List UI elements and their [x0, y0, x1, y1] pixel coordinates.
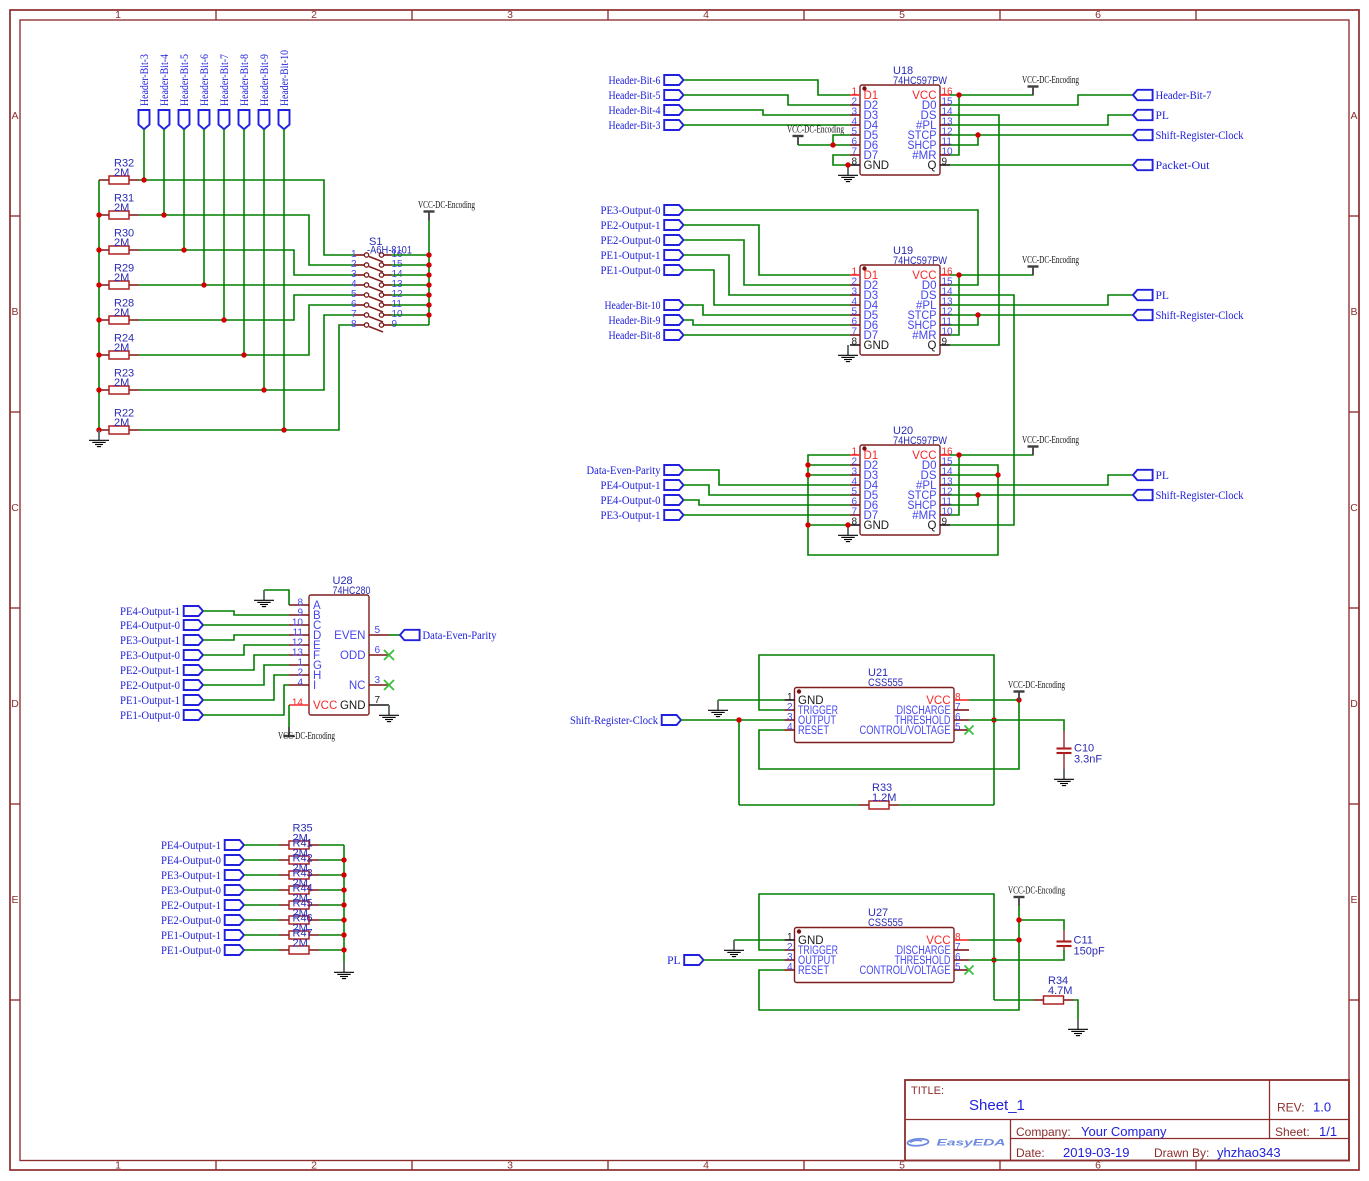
switch S1 A6H-8101 [351, 249, 403, 332]
wire U27.THRESHOLD to C11 [969, 950, 1064, 960]
U28 pin 2 (H) stub [289, 674, 309, 676]
svg-text:PE1-Output-1: PE1-Output-1 [120, 695, 180, 707]
U27 pin 3 (OUTPUT) stub [785, 959, 795, 961]
junction array bus [341, 917, 346, 922]
U20 pin 8 (GND) stub [850, 524, 860, 526]
svg-text:PE3-Output-1: PE3-Output-1 [120, 635, 180, 647]
resistor R33 1.2M [859, 801, 899, 809]
svg-text:9: 9 [942, 337, 948, 348]
no-connect X on U21.CONTROL/VOLTAGE [965, 726, 974, 735]
U27 pin 1 (GND) stub [785, 939, 795, 941]
svg-text:7: 7 [375, 695, 381, 706]
svg-text:GND: GND [864, 160, 890, 172]
U19 pin 3 (D3) stub [850, 294, 860, 296]
junction U18 STCP/SHCP [975, 132, 980, 137]
svg-text:VCC-DC-Encoding: VCC-DC-Encoding [1008, 679, 1065, 691]
svg-text:D: D [11, 698, 19, 710]
power flag VCC-DC-Encoding at U28 (inverted) [284, 727, 295, 736]
wire U18.#PL to PL flag [950, 115, 1133, 125]
ground U28 pin A [254, 590, 274, 607]
net flag Data-Even-Parity [664, 465, 683, 475]
junction U18.D6 wire [830, 142, 835, 147]
U20 pin 15 (D0) stub [940, 464, 950, 466]
U20 pin 3 (D3) stub [850, 474, 860, 476]
ground U21 pin1 [708, 700, 728, 717]
svg-text:PE2-Output-1: PE2-Output-1 [161, 900, 221, 912]
junction U20 STCP/SHCP [975, 492, 980, 497]
net flag PL (input to U27) [684, 955, 703, 965]
U20 pin 1 (D1) stub [850, 454, 860, 456]
svg-text:PE1-Output-0: PE1-Output-0 [120, 710, 180, 722]
wire PE4-Output-1 to U20 [684, 485, 851, 495]
U27 pin 4 (RESET) stub [785, 969, 795, 971]
wire Header-Bit-5 to U18.D2 [684, 95, 851, 105]
svg-text:Shift-Register-Clock: Shift-Register-Clock [1156, 310, 1244, 322]
junction array bus [341, 902, 346, 907]
wire PE3-Output-1 to U20.D7 [684, 514, 851, 516]
U19 pin 15 (D0) stub [940, 284, 950, 286]
svg-text:B: B [11, 306, 18, 318]
junction R32/header column [141, 177, 146, 182]
wire R32 row to switch [139, 180, 354, 255]
U18 pin 5 (D5) stub [850, 134, 860, 136]
wire U19.#PL to PL flag [950, 295, 1133, 305]
wire R45 to bus [319, 919, 344, 921]
wire PE4-Output-1 to R35 [244, 844, 279, 846]
wire PE4-Output-0 to U20 [684, 500, 851, 505]
net flag Header-Bit-7 (vertical) [219, 110, 230, 129]
svg-text:B: B [1350, 306, 1357, 318]
power flag VCC-DC-Encoding at U27 [1014, 897, 1025, 906]
resistor R31 2M [99, 211, 139, 219]
svg-text:PE4-Output-1: PE4-Output-1 [161, 840, 221, 852]
junction R22/header column [281, 427, 286, 432]
svg-text:PE2-Output-0: PE2-Output-0 [120, 680, 180, 692]
U27 pin-1 marker dot [797, 929, 801, 933]
junction U20 D3 [805, 472, 810, 477]
power flag VCC-DC-Encoding at U18.VCC [1028, 87, 1039, 96]
net flag PE2-Output-1 (U28) [184, 665, 203, 675]
junction left bus [96, 212, 101, 217]
svg-text:VCC-DC-Encoding: VCC-DC-Encoding [1008, 885, 1065, 897]
net flag Header-Bit-4 [664, 105, 683, 115]
wire U27.VCC to rail [969, 939, 1019, 941]
svg-text:2019-03-19: 2019-03-19 [1063, 1145, 1130, 1160]
wire R34 row [994, 999, 1034, 1001]
ground U28 pin 7 [379, 705, 399, 722]
wire PE1-Output-0 to U19 [684, 270, 851, 305]
junction S1 VCC bus [426, 262, 431, 267]
svg-text:PL: PL [1156, 290, 1169, 302]
wire PE3-Output-1 to U28 [203, 635, 289, 640]
junction left bus [96, 427, 101, 432]
U19 pin 7 (D7) stub [850, 334, 860, 336]
ground R34 [1068, 1019, 1088, 1036]
wire Header-Bit-10 to U19.D5 [684, 305, 851, 315]
U20 pin 4 (D4) stub [850, 484, 860, 486]
U19 pin-1 marker dot [862, 266, 866, 270]
svg-text:2M: 2M [293, 938, 308, 950]
svg-text:E: E [1350, 894, 1357, 906]
svg-text:Header-Bit-9: Header-Bit-9 [609, 315, 661, 327]
U18 pin 13 (#PL) stub [940, 124, 950, 126]
U21 pin-1 marker dot [797, 689, 801, 693]
wire R30 row to switch [139, 250, 354, 275]
resistor R34 4.7M [1034, 996, 1074, 1004]
U19 pin 4 (D4) stub [850, 304, 860, 306]
svg-text:Header-Bit-3: Header-Bit-3 [139, 54, 151, 106]
wire PE1-Output-0 to U28 [203, 685, 289, 715]
svg-text:3: 3 [375, 675, 381, 686]
U18 pin 8 (GND) stub [850, 164, 860, 166]
U20 pin 2 (D2) stub [850, 464, 860, 466]
U18 pin 1 (D1) stub [850, 94, 860, 96]
svg-text:CONTROL/VOLTAGE: CONTROL/VOLTAGE [860, 725, 951, 737]
wire U21.TRIGGER top loop [759, 655, 994, 805]
U20 pin 7 (D7) stub [850, 514, 860, 516]
U21 pin 5 (CONTROL/VOLTAGE) stub [954, 729, 969, 731]
svg-text:74HC597PW: 74HC597PW [893, 435, 948, 447]
svg-text:PE2-Output-1: PE2-Output-1 [601, 220, 661, 232]
U18 pin 11 (SHCP) stub [940, 144, 950, 146]
U20 pin 12 (STCP) stub [940, 494, 950, 496]
svg-text:Data-Even-Parity: Data-Even-Parity [587, 465, 661, 477]
wire PE1-Output-1 to U19 [684, 255, 851, 295]
wire U18.D7 to GND row [833, 155, 850, 165]
net flag PE1-Output-0 (array) [225, 945, 244, 955]
svg-text:8: 8 [351, 319, 357, 330]
junction U20 pin8 ground tap [845, 522, 850, 527]
svg-text:4: 4 [787, 722, 793, 733]
svg-text:4.7M: 4.7M [1048, 985, 1072, 997]
net flag PE4-Output-1 (U28) [184, 606, 203, 616]
U18 pin 15 (D0) stub [940, 104, 950, 106]
U19 pin 11 (SHCP) stub [940, 324, 950, 326]
ground U20 pin8 [838, 525, 858, 542]
svg-text:8: 8 [851, 337, 857, 348]
U20 pin 11 (SHCP) stub [940, 504, 950, 506]
U27 pin 8 (VCC) stub [954, 939, 969, 941]
svg-text:PE3-Output-1: PE3-Output-1 [601, 510, 661, 522]
wire VCC to U18.D6 [798, 144, 850, 146]
wire Header-Bit-9 column [263, 129, 265, 390]
net flag PE4-Output-0 [664, 495, 683, 505]
wire PE3-Output-0 to U19.D0 [684, 210, 979, 285]
svg-text:CONTROL/VOLTAGE: CONTROL/VOLTAGE [860, 965, 951, 977]
net flag Header-Bit-7 (output) [1133, 90, 1153, 100]
net flag PE3-Output-0 [664, 205, 683, 215]
wire U21.RESET to VCC loop [759, 700, 1019, 769]
svg-text:4: 4 [297, 678, 303, 689]
power flag VCC-DC-Encoding at U19.VCC [1028, 267, 1039, 276]
net flag Header-Bit-8 [664, 330, 683, 340]
wire U20.#PL to PL flag [950, 475, 1133, 485]
wire Header-Bit-10 column [283, 129, 285, 430]
svg-text:Header-Bit-8: Header-Bit-8 [239, 54, 251, 106]
net flag Header-Bit-5 [664, 90, 683, 100]
net flag PE1-Output-1 (array) [225, 930, 244, 940]
svg-text:5: 5 [375, 625, 381, 636]
U18 pin 2 (D2) stub [850, 104, 860, 106]
wire Data-Even-Parity to U20 [684, 470, 851, 485]
svg-text:Shift-Register-Clock: Shift-Register-Clock [1156, 130, 1244, 142]
svg-text:VCC-DC-Encoding: VCC-DC-Encoding [1022, 434, 1079, 446]
junction S1 VCC bus [426, 292, 431, 297]
net flag PL (U19) [1133, 290, 1153, 300]
U28 pin 1 (G) stub [289, 664, 309, 666]
svg-text:Data-Even-Parity: Data-Even-Parity [423, 630, 497, 642]
resistor R44 2M [279, 901, 319, 909]
net flag PE4-Output-0 (array) [225, 855, 244, 865]
svg-text:RESET: RESET [798, 725, 829, 737]
junction U19 STCP/SHCP [975, 312, 980, 317]
title block [905, 1080, 1349, 1161]
net flag Data-Even-Parity (output) [400, 630, 420, 640]
svg-text:CSS555: CSS555 [868, 917, 903, 929]
svg-text:Header-Bit-3: Header-Bit-3 [609, 120, 661, 132]
U19 pin 6 (D6) stub [850, 324, 860, 326]
junction R31/header column [161, 212, 166, 217]
wire U19.DS down to U20.Q [950, 295, 1014, 525]
svg-text:RESET: RESET [798, 965, 829, 977]
net flag PE2-Output-1 (array) [225, 900, 244, 910]
U19 pin 13 (#PL) stub [940, 304, 950, 306]
svg-text:Packet-Out: Packet-Out [1156, 160, 1211, 172]
junction U21 output/R33 [736, 717, 741, 722]
wire PE2-Output-1 to R44 [244, 904, 279, 906]
wire S1 pin 9 to VCC bus [392, 324, 430, 326]
net flag PE1-Output-1 [664, 250, 683, 260]
svg-text:74HC597PW: 74HC597PW [893, 75, 948, 87]
U28 pin 10 (C) stub [289, 624, 309, 626]
IC U18 74HC597PW body [860, 85, 940, 175]
net flag PE3-Output-1 (U28) [184, 635, 203, 645]
U28 pin 7 (GND) stub [369, 704, 389, 706]
svg-text:ODD: ODD [340, 650, 366, 662]
net flag PE2-Output-1 [664, 220, 683, 230]
junction U27 VCC node [1016, 937, 1021, 942]
wire U18.D5 jog [833, 135, 850, 145]
net flag Shift-Register-Clock (input to U21) [662, 715, 681, 725]
resistor R41 2M [279, 856, 319, 864]
U28 pin 14 (VCC) stub [289, 704, 309, 706]
net flag PL (U20) [1133, 470, 1153, 480]
resistor R42 2M [279, 871, 319, 879]
svg-text:8: 8 [851, 517, 857, 528]
svg-text:PE4-Output-0: PE4-Output-0 [120, 620, 180, 632]
U21 pin 7 (DISCHARGE) stub [954, 709, 969, 711]
wire PL to U27.OUTPUT [704, 959, 785, 961]
wire R28 row to switch [139, 295, 354, 320]
wire PE2-Output-0 to U19 [684, 240, 851, 285]
wire U20.D3 tie [808, 474, 850, 476]
svg-text:2M: 2M [114, 272, 129, 284]
U19 pin 12 (STCP) stub [940, 314, 950, 316]
resistor R32 2M [99, 176, 139, 184]
svg-text:A: A [11, 110, 18, 122]
wire PE1-Output-1 to R46 [244, 934, 279, 936]
svg-text:PE2-Output-0: PE2-Output-0 [601, 235, 661, 247]
svg-text:VCC-DC-Encoding: VCC-DC-Encoding [1022, 74, 1079, 86]
U18 pin-1 marker dot [862, 86, 866, 90]
resistor R45 2M [279, 916, 319, 924]
svg-text:Header-Bit-10: Header-Bit-10 [605, 300, 661, 312]
svg-text:NC: NC [349, 680, 366, 692]
net flag Header-Bit-9 (vertical) [259, 110, 270, 129]
resistor R35 2M [279, 841, 319, 849]
U27 pin 7 (DISCHARGE) stub [954, 949, 969, 951]
wire array ground bus [343, 845, 345, 962]
svg-text:1.2M: 1.2M [872, 792, 896, 804]
U28 pin 5 (EVEN) stub [369, 634, 389, 636]
wire U20.STCP to Shift-Register-Clock [950, 494, 1133, 496]
svg-text:PE1-Output-0: PE1-Output-0 [161, 945, 221, 957]
U19 pin 2 (D2) stub [850, 284, 860, 286]
svg-text:Q: Q [928, 340, 937, 352]
U19 pin 8 (GND) stub [850, 344, 860, 346]
svg-text:PE2-Output-0: PE2-Output-0 [161, 915, 221, 927]
svg-text:5: 5 [955, 722, 961, 733]
wire S1 pin 16 to VCC bus [392, 254, 430, 256]
svg-text:Header-Bit-7: Header-Bit-7 [219, 54, 231, 106]
wire U27.RESET to VCC loop [759, 906, 1019, 1010]
svg-text:1: 1 [115, 9, 121, 21]
svg-text:E: E [11, 894, 18, 906]
wire PE2-Output-0 to R45 [244, 919, 279, 921]
svg-text:5: 5 [899, 9, 905, 21]
U28 pin 9 (B) stub [289, 614, 309, 616]
wire Header-Bit-8 to U19.D7 [684, 334, 851, 336]
resistor R24 2M [99, 351, 139, 359]
wire U20 #MR tie to VCC [950, 455, 959, 515]
wire R35 to bus [319, 844, 344, 846]
U28 pin 12 (E) stub [289, 644, 309, 646]
resistor R47 2M [279, 946, 319, 954]
U20 pin 16 (VCC) stub [940, 454, 950, 456]
U28 pin 8 (A) stub [289, 604, 309, 606]
wire U19.VCC to supply [950, 274, 1033, 276]
svg-text:2M: 2M [114, 202, 129, 214]
EasyEDA logo [907, 1137, 1005, 1147]
junction U18 pin8 ground tap [845, 162, 850, 167]
U27 pin 5 (CONTROL/VOLTAGE) stub [954, 969, 969, 971]
U18 pin 12 (STCP) stub [940, 134, 950, 136]
wire U27.GND to ground [734, 939, 785, 941]
U18 pin 10 (#MR) stub [940, 154, 950, 156]
wire PE3-Output-1 to R42 [244, 874, 279, 876]
wire R23 row to switch [139, 315, 354, 390]
U28 pin 4 (I) stub [289, 684, 309, 686]
svg-text:74HC597PW: 74HC597PW [893, 255, 948, 267]
net flag PE4-Output-0 (U28) [184, 620, 203, 630]
resistor R46 2M [279, 931, 319, 939]
U18 pin 6 (D6) stub [850, 144, 860, 146]
wire R33 row [739, 804, 859, 806]
wire R29 row to switch [139, 284, 354, 286]
wire Header-Bit-3 to U18.D4 [684, 124, 851, 126]
net flag Shift-Register-Clock (U20) [1133, 490, 1153, 500]
U20 pin-1 marker dot [862, 446, 866, 450]
net flag PE3-Output-1 [664, 510, 683, 520]
wire Shift-Register-Clock to U21.OUTPUT [681, 719, 785, 721]
power flag VCC-DC-Encoding at U21 [1014, 692, 1025, 701]
U20 pin 13 (#PL) stub [940, 484, 950, 486]
svg-text:Header-Bit-4: Header-Bit-4 [609, 105, 661, 117]
net flag Packet-Out (output) [1133, 160, 1153, 170]
svg-text:VCC-DC-Encoding: VCC-DC-Encoding [278, 730, 335, 742]
U21 pin 6 (THRESHOLD) stub [954, 719, 969, 721]
wire R44 to bus [319, 904, 344, 906]
U19 pin 1 (D1) stub [850, 274, 860, 276]
wire S1 pin 15 to VCC bus [392, 264, 430, 266]
svg-text:VCC-DC-Encoding: VCC-DC-Encoding [787, 124, 844, 136]
wire U28.EVEN to Data-Even-Parity [389, 634, 400, 636]
svg-text:4: 4 [703, 9, 709, 21]
svg-text:Header-Bit-5: Header-Bit-5 [179, 54, 191, 106]
wire R42 to bus [319, 874, 344, 876]
svg-text:2M: 2M [114, 417, 129, 429]
IC U27 CSS555 body [795, 928, 955, 983]
wire U18.D0 to Header-Bit-7 [950, 95, 1133, 105]
wire PE4-Output-0 to U28 [203, 624, 289, 626]
junction U20 DS/loop [995, 472, 1000, 477]
wire U19.SHCP tie [950, 315, 978, 325]
U28 pin 3 (NC) stub [369, 684, 389, 686]
net flag PE1-Output-1 (U28) [184, 695, 203, 705]
net flag Header-Bit-9 [664, 315, 683, 325]
svg-text:8: 8 [851, 157, 857, 168]
U20 pin 9 (Q) stub [940, 524, 950, 526]
svg-text:PE3-Output-0: PE3-Output-0 [120, 650, 180, 662]
junction U20 VCC/#MR [956, 452, 961, 457]
svg-text:Header-Bit-5: Header-Bit-5 [609, 90, 661, 102]
svg-text:3: 3 [507, 1160, 513, 1172]
wire S1 pin 11 to VCC bus [392, 304, 430, 306]
svg-text:Header-Bit-6: Header-Bit-6 [609, 75, 661, 87]
wire Header-Bit-7 column [223, 129, 225, 320]
ground U27 pin1 [724, 940, 744, 957]
U19 pin 16 (VCC) stub [940, 274, 950, 276]
junction R24/header column [241, 352, 246, 357]
U21 pin 1 (GND) stub [785, 699, 795, 701]
svg-text:4: 4 [703, 1160, 709, 1172]
svg-text:74HC280: 74HC280 [333, 585, 371, 597]
junction U21 THRESHOLD/loop [991, 717, 996, 722]
wire R43 to bus [319, 889, 344, 891]
svg-text:PE1-Output-1: PE1-Output-1 [601, 250, 661, 262]
power flag VCC-DC-Encoding at U18.D5/D6 [793, 136, 804, 145]
wire S1 pin 12 to VCC bus [392, 294, 430, 296]
wire U18 #MR tie to VCC [950, 95, 959, 155]
U19 pin 10 (#MR) stub [940, 334, 950, 336]
wire C11 top branch [1019, 920, 1064, 930]
junction array bus [341, 872, 346, 877]
U20 pin 5 (D5) stub [850, 494, 860, 496]
resistor R23 2M [99, 386, 139, 394]
net flag PE1-Output-0 [664, 265, 683, 275]
svg-text:Q: Q [928, 520, 937, 532]
wire S1 VCC bus vertical [428, 221, 430, 326]
svg-text:14: 14 [292, 698, 304, 709]
svg-text:VCC-DC-Encoding: VCC-DC-Encoding [418, 199, 475, 211]
wire S1 pin 13 to VCC bus [392, 284, 430, 286]
svg-text:4: 4 [787, 962, 793, 973]
svg-text:EasyEDA: EasyEDA [937, 1137, 1006, 1147]
junction left bus [96, 317, 101, 322]
wire U20.VCC to supply [950, 454, 1033, 456]
svg-text:1: 1 [115, 1160, 121, 1172]
U21 pin 2 (TRIGGER) stub [785, 709, 795, 711]
